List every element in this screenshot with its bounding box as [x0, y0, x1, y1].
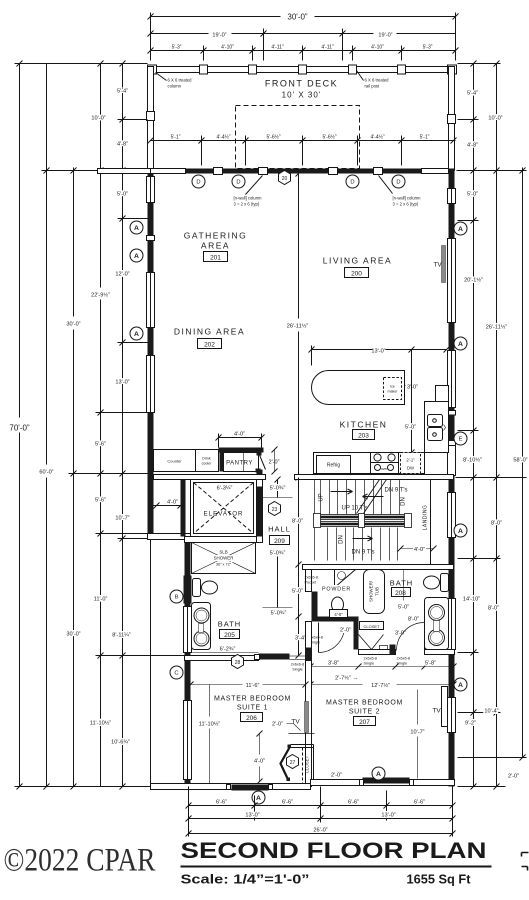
dimension 4'-0" landing	[398, 546, 437, 554]
left lower window 1	[184, 607, 192, 653]
svg-text:206: 206	[246, 715, 257, 722]
door circle D 2	[232, 175, 245, 188]
pantry door slant	[259, 453, 266, 470]
kitchen island	[312, 371, 405, 405]
svg-text:27: 27	[290, 760, 296, 766]
svg-text:2'-0”: 2'-0”	[340, 628, 351, 634]
svg-text:TV: TV	[291, 719, 300, 726]
svg-text:B: B	[175, 595, 179, 601]
left lower boundary thin lines	[150, 540, 152, 784]
door circle D 3	[346, 175, 359, 188]
right wall window landing	[448, 493, 456, 538]
cooktop / oven	[371, 453, 399, 463]
left lower window 2	[184, 701, 192, 780]
svg-text:UP 10 T's: UP 10 T's	[342, 506, 368, 512]
dishwasher DW	[401, 453, 421, 474]
svg-text:TV: TV	[432, 708, 441, 715]
front wall	[151, 169, 186, 174]
svg-text:[n-wall] column: [n-wall] column	[234, 196, 263, 201]
dimension column right x=522: 58'-0"	[513, 168, 527, 761]
svg-text:DW: DW	[407, 466, 414, 471]
svg-text:5'-6”: 5'-6”	[95, 498, 106, 504]
bath 205 vanity	[192, 603, 211, 650]
svg-text:SHOWER/: SHOWER/	[369, 580, 374, 602]
dimension 26'-0"	[186, 828, 456, 837]
dimension 11'-6" suite1	[188, 682, 309, 690]
suite2 bottom wall	[311, 780, 455, 786]
shower bath 205	[192, 543, 256, 574]
note in-wall column right	[379, 176, 393, 194]
svg-text:4'-4½”: 4'-4½”	[216, 134, 230, 141]
svg-text:20: 20	[282, 176, 288, 182]
svg-text:12'-0”: 12'-0”	[115, 272, 129, 278]
svg-text:11'-6”: 11'-6”	[246, 683, 260, 689]
pocket door bath 205	[184, 576, 192, 604]
svg-text:8'-0”: 8'-0”	[292, 519, 303, 525]
svg-text:3'-0”: 3'-0”	[407, 385, 418, 391]
bottom extension lines	[188, 787, 190, 837]
svg-text:2x6x6-8: 2x6x6-8	[364, 657, 378, 661]
svg-text:Single: Single	[292, 668, 303, 672]
dimension 11'-10 1/2" suite1 vertical	[199, 685, 221, 784]
dimension 26'-11 1/2" interior (x=298)	[287, 171, 309, 481]
svg-text:6'-6”: 6'-6”	[348, 800, 359, 806]
door circle B	[170, 590, 183, 603]
svg-text:19'-0”: 19'-0”	[212, 33, 226, 39]
svg-text:DN: DN	[401, 497, 407, 506]
right wall window suite 2	[448, 698, 456, 733]
dimension 11'-0" left lower	[94, 534, 185, 659]
svg-text:Single: Single	[364, 662, 375, 666]
svg-text:10'-6¾”: 10'-6¾”	[111, 740, 130, 746]
stairs lower flight treads	[328, 528, 398, 561]
svg-text:A: A	[134, 225, 139, 232]
suite2 wall segments y=649	[359, 650, 396, 655]
suite1 closet	[281, 734, 315, 784]
svg-text:4'-8”: 4'-8”	[467, 143, 478, 149]
svg-text:4'-10”: 4'-10”	[371, 45, 384, 51]
wall elevator/shower y=536	[185, 537, 257, 543]
svg-text:4'-11”: 4'-11”	[271, 45, 284, 51]
door circle C	[170, 666, 183, 679]
svg-text:A: A	[256, 795, 261, 802]
svg-text:36” x 72”: 36” x 72”	[216, 563, 232, 567]
svg-text:A: A	[458, 226, 463, 233]
closet right wall black	[354, 622, 359, 650]
stair center rails	[315, 515, 411, 520]
svg-text:202: 202	[204, 342, 215, 349]
svg-text:TV: TV	[433, 262, 442, 269]
dimension 60'-0" left	[39, 64, 147, 790]
svg-text:rail post: rail post	[365, 84, 380, 89]
svg-text:58'-0”: 58'-0”	[513, 458, 527, 464]
stairs diagonal break line	[364, 480, 387, 514]
window circle A left 3	[130, 327, 143, 340]
kitchen sink unit	[425, 402, 449, 453]
kitchen wall cabinet right	[436, 386, 449, 411]
svg-text:5'-0¾”: 5'-0¾”	[270, 551, 286, 557]
svg-text:26'-0”: 26'-0”	[313, 828, 327, 834]
dimension 19'-0" right	[261, 29, 456, 61]
svg-text:POWDER: POWDER	[322, 587, 351, 593]
svg-text:28: 28	[235, 660, 241, 666]
dimension column right x=473: 5'-4",4'-8",5'-0",20'-1 1/2",8'-10 1/2",14'-10",9'-2"	[463, 61, 483, 790]
SHOWER/TUB bath 208	[364, 570, 385, 614]
svg-text:SLB: SLB	[219, 550, 227, 555]
svg-text:23: 23	[272, 507, 278, 513]
svg-text:26'-11½”: 26'-11½”	[486, 324, 508, 331]
svg-text:2'-1”: 2'-1”	[406, 458, 415, 463]
svg-text:6'-6”: 6'-6”	[282, 800, 293, 806]
door tag hexagon 26	[232, 655, 244, 669]
svg-text:PANTRY: PANTRY	[226, 461, 253, 467]
door circle E	[454, 432, 467, 445]
svg-text:2x6x6-8: 2x6x6-8	[291, 663, 305, 667]
svg-text:BATH: BATH	[218, 620, 241, 629]
front wall right window	[422, 169, 449, 174]
svg-text:2x6x6-8: 2x6x6-8	[397, 657, 411, 661]
svg-text:19'-0”: 19'-0”	[378, 33, 392, 39]
note in-wall column left	[246, 176, 263, 195]
left exterior wall upper	[148, 174, 154, 539]
svg-text:3 = 2 x 6 (typ): 3 = 2 x 6 (typ)	[234, 202, 260, 207]
dimension 5'-0" kitchen vertical	[405, 347, 416, 456]
dimension column x=122: 5'-0",12'-0",13'-0",10'-7",8'-11 3/4"	[111, 61, 147, 790]
svg-text:MASTER BEDROOM: MASTER BEDROOM	[214, 696, 291, 703]
dimension 4'-0" closet	[254, 731, 265, 785]
svg-text:12'-7½”: 12'-7½”	[371, 682, 390, 689]
svg-text:Ice: Ice	[390, 385, 395, 389]
drink cooler	[196, 450, 219, 472]
svg-text:6 X 6 treated: 6 X 6 treated	[168, 78, 193, 83]
svg-text:D: D	[350, 180, 354, 186]
svg-text:A: A	[458, 682, 463, 689]
svg-text:10'-7”: 10'-7”	[410, 730, 424, 736]
right edge mark	[522, 853, 529, 871]
svg-text:203: 203	[358, 433, 369, 440]
svg-text:6'-2¾”: 6'-2¾”	[220, 647, 236, 653]
svg-text:Refrig: Refrig	[327, 463, 341, 469]
svg-text:3'-8”: 3'-8”	[328, 661, 339, 667]
left wall window 2	[147, 273, 155, 328]
svg-text:BATH: BATH	[390, 579, 413, 588]
dimension 30'-0" overall top	[148, 13, 459, 61]
svg-text:5'-0”: 5'-0”	[117, 192, 128, 198]
hall left wall x=256	[257, 480, 263, 543]
dimension 13'-0" kitchen	[309, 346, 450, 366]
svg-text:209: 209	[274, 538, 285, 545]
dimension 30'-0" upper left	[66, 168, 150, 790]
svg-text:5'-6½”: 5'-6½”	[322, 134, 336, 141]
svg-text:4'-10”: 4'-10”	[221, 45, 234, 51]
dimension 3'-0" ice maker	[405, 385, 419, 387]
svg-text:SUITE 2: SUITE 2	[349, 709, 380, 716]
door circle D 1	[192, 175, 205, 188]
window circle A suite1 bottom	[252, 791, 265, 804]
svg-text:cooler: cooler	[202, 462, 213, 466]
svg-text:70'-0”: 70'-0”	[9, 424, 30, 433]
deck top rail wall	[151, 67, 456, 73]
svg-text:14'-10”: 14'-10”	[463, 597, 480, 603]
svg-text:4'-4½”: 4'-4½”	[370, 134, 384, 141]
svg-text:SUITE 1: SUITE 1	[237, 705, 268, 712]
dimension 4'-0" boxed powder	[330, 610, 348, 618]
svg-text:10'-0”: 10'-0”	[488, 116, 502, 122]
right exterior wall	[449, 174, 455, 787]
svg-text:8'-0”: 8'-0”	[408, 617, 419, 623]
svg-text:8'-0”: 8'-0”	[488, 606, 499, 612]
svg-text:A: A	[458, 341, 463, 348]
wall bath205 bottom / suite1 top y=655	[185, 656, 259, 661]
svg-text:5'-0”: 5'-0”	[405, 425, 416, 431]
svg-text:8'-10½”: 8'-10½”	[463, 457, 482, 464]
window circle A suite2 bottom	[372, 767, 385, 780]
wall powder top y=564	[303, 565, 454, 570]
deck right rail wall	[449, 67, 455, 171]
refrigerator	[317, 456, 351, 474]
hall dimension column x=298 lower	[292, 478, 306, 659]
svg-text:D: D	[196, 180, 200, 186]
right extension lines	[458, 63, 501, 65]
counter / drink cooler / pantry row	[154, 450, 219, 472]
svg-text:4'-0”: 4'-0”	[167, 500, 178, 506]
svg-text:5'-0”: 5'-0”	[398, 605, 409, 611]
svg-text:KITCHEN: KITCHEN	[340, 420, 388, 430]
dimension 5'-6" / 5'-6" left	[95, 413, 148, 537]
svg-text:AREA: AREA	[201, 241, 230, 251]
window circle A right 3	[454, 524, 467, 537]
svg-text:9'-2”: 9'-2”	[465, 721, 476, 727]
svg-text:30'-0”: 30'-0”	[66, 322, 80, 328]
window circle A left 2	[130, 249, 143, 262]
svg-text:UP: UP	[319, 493, 325, 501]
powder toilet	[332, 597, 344, 612]
svg-text:10' X 30': 10' X 30'	[282, 91, 322, 100]
door circle D 4	[392, 175, 405, 188]
svg-text:13'-0”: 13'-0”	[115, 380, 129, 386]
svg-text:5'-1”: 5'-1”	[420, 135, 430, 141]
svg-text:22'-9½”: 22'-9½”	[91, 292, 110, 299]
left wall jog at y=533	[148, 534, 191, 540]
left wall window 1	[147, 177, 155, 203]
pantry	[219, 448, 264, 453]
svg-text:5'-0¾”: 5'-0¾”	[271, 611, 287, 617]
svg-text:20'-1½”: 20'-1½”	[464, 277, 483, 284]
svg-text:205: 205	[224, 632, 235, 639]
svg-text:GATHERING: GATHERING	[184, 231, 247, 241]
in-wall column posts	[214, 168, 223, 175]
svg-text:A: A	[134, 331, 139, 338]
svg-text:5'-4”: 5'-4”	[117, 89, 128, 95]
svg-text:oven: oven	[381, 467, 389, 471]
svg-text:1655 Sq Ft: 1655 Sq Ft	[407, 873, 472, 887]
svg-text:60'-0”: 60'-0”	[39, 470, 53, 476]
svg-text:8'-0”: 8'-0”	[491, 521, 502, 527]
svg-text:2'-0”: 2'-0”	[272, 722, 283, 728]
right wall window living 2 / TV	[448, 239, 456, 323]
svg-text:4'-0”: 4'-0”	[254, 759, 265, 765]
svg-text:13'-0”: 13'-0”	[371, 349, 385, 355]
bath 205 toilet	[193, 579, 201, 597]
powder corner sink	[335, 570, 356, 588]
door tag hexagon 27	[287, 755, 299, 769]
svg-text:13'-0”: 13'-0”	[245, 813, 259, 819]
svg-text:11'-0”: 11'-0”	[94, 597, 108, 603]
dimension 10'-6 3/4" left lower	[90, 656, 112, 787]
svg-text:30'-0”: 30'-0”	[287, 13, 308, 22]
svg-text:D: D	[396, 180, 400, 186]
suite1 bottom wall	[151, 784, 311, 790]
dimension row 3'-8" / 5'-8"	[308, 661, 457, 670]
svg-text:A: A	[458, 528, 463, 535]
svg-text:208: 208	[395, 590, 406, 597]
right wall window kitchen	[448, 351, 456, 408]
svg-text:2'-0”: 2'-0”	[331, 773, 342, 779]
dimension 2'-0" pantry door	[269, 447, 280, 475]
svg-text:201: 201	[210, 255, 221, 262]
elevator lobby wall black	[181, 480, 186, 537]
svg-text:5'-4”: 5'-4”	[467, 91, 478, 97]
svg-text:6'-6”: 6'-6”	[216, 800, 227, 806]
dimension 4'-0" left of elevator	[154, 500, 184, 509]
svg-text:DN: DN	[339, 535, 345, 544]
svg-text:5'-3”: 5'-3”	[172, 45, 182, 51]
svg-text:5'-0”: 5'-0”	[292, 589, 303, 595]
svg-text:LIVING AREA: LIVING AREA	[323, 256, 392, 266]
svg-text:4'-8”: 4'-8”	[117, 142, 128, 148]
dimension row 6'-6" x4	[186, 800, 456, 809]
svg-text:10'-0”: 10'-0”	[91, 116, 105, 122]
dimension 4'-0" above pantry	[216, 432, 265, 448]
svg-text:10'-7”: 10'-7”	[115, 516, 129, 522]
svg-text:TUB: TUB	[375, 587, 380, 596]
svg-text:Pocket: Pocket	[305, 581, 318, 585]
svg-text:5'-1”: 5'-1”	[171, 135, 181, 141]
svg-text:11'-10½”: 11'-10½”	[90, 720, 112, 727]
dashed area on deck	[236, 106, 360, 169]
dimension 12'-7 1/2"	[308, 682, 457, 690]
kitchen lower counter	[314, 453, 425, 474]
svg-text:3 = 2 x 6 (typ): 3 = 2 x 6 (typ)	[393, 202, 419, 207]
svg-text:C: C	[174, 671, 178, 677]
dimension 10'-7" suite2	[410, 690, 424, 779]
bath 208 door arc	[397, 623, 425, 651]
svg-text:A: A	[134, 253, 139, 260]
svg-text:11'-10½”: 11'-10½”	[199, 721, 221, 728]
svg-text:CLOSET: CLOSET	[305, 755, 310, 773]
svg-text:[n-wall] column: [n-wall] column	[393, 196, 422, 201]
dimension row 5'-1" / 4'-4 1/2" / 5'-6 1/2" / 5'-6 1/2" / 4'-4 1/2" / 5'-1" above front wall	[148, 134, 457, 166]
svg-text:FRONT DECK: FRONT DECK	[265, 79, 338, 89]
left wall joint	[147, 236, 155, 241]
door tag hexagon 20	[279, 171, 291, 185]
CLOSET label bath208	[360, 622, 384, 630]
svg-text:2'-0”: 2'-0”	[269, 460, 280, 466]
note 6 X 6 treated rail post	[357, 71, 364, 81]
window circle A left 1	[130, 221, 143, 234]
svg-text:DINING AREA: DINING AREA	[174, 327, 245, 337]
dimension 19'-0" left	[148, 29, 346, 61]
bath 208 vanity	[425, 598, 449, 650]
dimension row 5'-3" / 4'-10" / 4'-11" / 4'-11" / 4'-10" / 5'-3"	[148, 45, 459, 61]
powder left wall black + pocket	[306, 570, 312, 592]
TV living area	[442, 246, 446, 283]
deck left rail wall	[148, 67, 154, 171]
right wall window living 1	[448, 189, 456, 204]
svg-text:2'-0”: 2'-0”	[508, 774, 519, 780]
rail posts top	[148, 65, 157, 74]
svg-text:4'-0”: 4'-0”	[334, 612, 343, 617]
svg-text:5'-0”: 5'-0”	[467, 192, 478, 198]
svg-text:5'-6½”: 5'-6½”	[266, 134, 280, 141]
svg-text:D: D	[236, 180, 240, 186]
svg-text:4'-0”: 4'-0”	[414, 547, 425, 553]
closet bifold doors	[359, 635, 384, 650]
svg-text:2x6x6-8: 2x6x6-8	[305, 576, 319, 580]
dimension 22'-9 1/2" left	[91, 61, 147, 416]
pocket door suite 1 (black bar)	[259, 654, 290, 660]
left exterior wall lower	[185, 540, 191, 790]
svg-text:DN 9 T's: DN 9 T's	[385, 488, 408, 494]
svg-text:6'-3¼”: 6'-3¼”	[217, 486, 233, 492]
elevator shaft	[191, 480, 257, 537]
left wall window 3	[147, 356, 155, 413]
dimension 6'-2 3/4" bath 205	[191, 647, 259, 653]
front wall left stub	[98, 169, 151, 174]
elevator door tag hexagon 23	[269, 502, 281, 516]
svg-text:6'-6”: 6'-6”	[414, 800, 425, 806]
svg-text:5'-6”: 5'-6”	[95, 442, 106, 448]
stairs direction arrows	[331, 489, 353, 494]
svg-text:Scale: 1/4”=1'-0”: Scale: 1/4”=1'-0”	[181, 873, 310, 887]
svg-text:SHOWER: SHOWER	[214, 556, 234, 561]
powder door arc	[319, 627, 345, 653]
note 6 X 6 treated column	[156, 73, 167, 81]
svg-text:26'-11½”: 26'-11½”	[287, 323, 309, 330]
svg-text:5'-8”: 5'-8”	[425, 661, 436, 667]
svg-text:207: 207	[359, 719, 370, 726]
dimension 70'-0" overall left	[9, 61, 188, 790]
svg-text:5'-0¾”: 5'-0¾”	[270, 486, 286, 492]
svg-text:4'-0”: 4'-0”	[234, 432, 245, 438]
svg-text:ELEVATOR: ELEVATOR	[204, 511, 244, 518]
window circle A right 1	[454, 222, 467, 235]
window circle A right 4	[454, 678, 467, 691]
wall kitchen/stairs y=474	[154, 475, 266, 480]
right wall door E area	[448, 411, 456, 416]
bath 208 toilet	[441, 574, 449, 592]
hall dimension column x=277	[263, 477, 293, 617]
right wall window bath 208	[448, 599, 456, 650]
svg-text:2'-7½” →: 2'-7½” →	[335, 675, 358, 682]
stairs upper flight treads	[315, 480, 400, 561]
svg-text:13'-0”: 13'-0”	[381, 813, 395, 819]
powder bottom wall black	[312, 617, 359, 622]
svg-text:200: 200	[351, 271, 362, 278]
svg-text:3'-4”: 3'-4”	[295, 636, 306, 642]
svg-text:4'-11”: 4'-11”	[321, 45, 334, 51]
suite2 window black bar	[363, 778, 410, 784]
svg-text:HALL: HALL	[268, 525, 291, 534]
svg-text:30'-0”: 30'-0”	[66, 632, 80, 638]
svg-text:maker: maker	[388, 390, 399, 394]
suite1 window/door black bar	[232, 785, 269, 791]
svg-text:10'-4”: 10'-4”	[484, 709, 498, 715]
title underline	[181, 866, 492, 868]
wall divider suite1/suite2 x=305	[306, 661, 312, 787]
svg-text:5'-3”: 5'-3”	[423, 45, 433, 51]
svg-text:CLOSET: CLOSET	[363, 624, 380, 629]
